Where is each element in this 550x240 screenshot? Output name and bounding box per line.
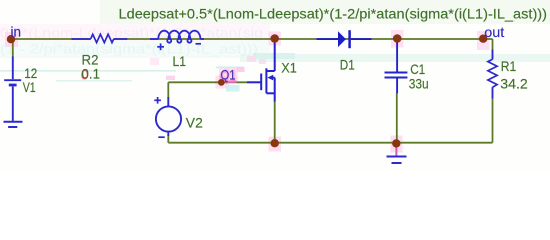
diode D1 (317, 30, 372, 48)
svg-text:out: out (484, 24, 504, 40)
capacitor C1 (385, 42, 408, 93)
wire: right column (out node down to R1 and rail) (492, 39, 494, 59)
svg-text:X1: X1 (281, 59, 297, 75)
wire: V2 bottom lead (167, 135, 169, 143)
V2 polarity marks (154, 97, 164, 137)
small pink smudges (166, 76, 175, 81)
junction dot: rail / ground (392, 139, 400, 147)
nmos X1 (247, 42, 275, 102)
wire: mosfet source to rail (274, 101, 276, 143)
voltage source V2 (156, 97, 181, 136)
svg-text:(1 - 2/pi*atan(sigma*(i(L1)-IL: (1 - 2/pi*atan(sigma*(i(L1)-IL_ast))) (0, 41, 258, 57)
svg-text:in: in (11, 24, 22, 40)
svg-text:D1: D1 (340, 57, 355, 73)
ghost cyan patch below gate dot (226, 85, 240, 92)
junction dot: node in (7, 35, 15, 43)
wire: bottom rail (168, 142, 492, 144)
junction dot: mosfet drain / top rail (270, 34, 279, 43)
resistor R1 (488, 50, 497, 99)
svg-text:V1: V1 (23, 79, 36, 95)
ghost horizontal line (0, 70, 176, 72)
svg-text:R1: R1 (501, 58, 517, 74)
svg-text:V2: V2 (186, 115, 203, 131)
svg-text:L1: L1 (173, 53, 187, 69)
svg-text:34.2: 34.2 (500, 76, 528, 92)
svg-text:C1: C1 (410, 61, 425, 77)
resistor R2 (72, 34, 128, 42)
junction dot: gate (218, 79, 225, 86)
junction dot: node out (479, 35, 487, 43)
ground (V1) (4, 122, 23, 127)
wire: V2 top lead (167, 82, 169, 98)
background washes (ghost frame tints) (100, 0, 550, 24)
svg-text:0.1: 0.1 (82, 66, 101, 82)
inductor L1 polarity marks (157, 43, 201, 50)
wire: gate wire (168, 81, 247, 83)
ground (bottom rail, magenta ghost stub) (395, 147, 397, 156)
junction dot: C1 top (393, 34, 402, 43)
ghost cyan streak above Q1 (216, 66, 243, 68)
junction dot: rail / source (271, 139, 279, 147)
wire: top rail (11, 38, 91, 40)
nmos X1 arrow (267, 75, 273, 81)
svg-text:Ldeepsat+0.5*(Lnom-Ldeepsat)*(: Ldeepsat+0.5*(Lnom-Ldeepsat)*(1-2/pi*ata… (119, 6, 548, 22)
pink halos behind junction dots (5, 32, 18, 47)
ghost magenta segment on gate wire (227, 81, 237, 83)
inductor L1 (150, 31, 204, 43)
wire: V1 top lead (12, 39, 14, 57)
voltage source V1 (battery) (4, 57, 21, 121)
svg-text:33u: 33u (409, 76, 429, 92)
wire: C1 bottom to rail (396, 93, 398, 143)
